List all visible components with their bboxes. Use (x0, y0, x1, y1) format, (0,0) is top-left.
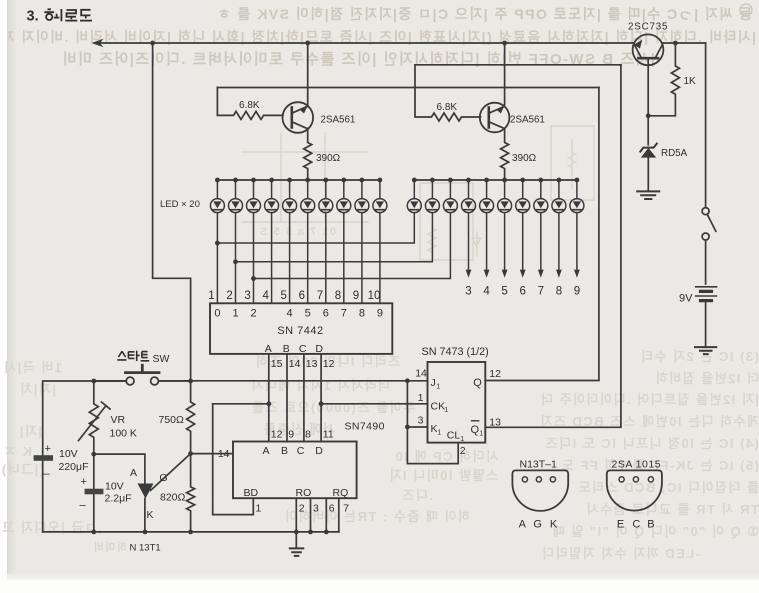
svg-text:A: A (265, 343, 272, 355)
svg-text:1: 1 (436, 383, 440, 390)
svg-text:4: 4 (483, 286, 490, 298)
svg-text:8: 8 (305, 428, 311, 440)
svg-text:B: B (281, 445, 288, 457)
svg-text:750Ω: 750Ω (159, 414, 185, 426)
svg-text:2: 2 (299, 503, 305, 515)
svg-text:+: + (45, 443, 51, 455)
svg-text:Q: Q (471, 424, 480, 436)
svg-text:13: 13 (306, 358, 318, 370)
svg-text:3: 3 (244, 290, 250, 302)
svg-text:RD5A: RD5A (661, 148, 688, 159)
svg-text:VR: VR (111, 414, 126, 426)
svg-text:220μF: 220μF (59, 461, 89, 473)
svg-text:390Ω: 390Ω (512, 153, 537, 164)
svg-text:E: E (617, 519, 624, 531)
svg-text:4: 4 (287, 308, 293, 320)
svg-text:7: 7 (538, 286, 544, 298)
svg-text:N13T–1: N13T–1 (520, 458, 558, 470)
svg-text:C: C (299, 343, 307, 355)
svg-text:14: 14 (415, 367, 427, 379)
svg-text:9V: 9V (679, 293, 693, 305)
svg-text:2SA561: 2SA561 (321, 114, 356, 125)
svg-text:13: 13 (489, 417, 501, 429)
svg-text:6: 6 (323, 308, 329, 320)
svg-text:8: 8 (556, 286, 562, 298)
svg-text:2SA561: 2SA561 (510, 114, 545, 125)
svg-text:14: 14 (289, 358, 301, 370)
svg-text:7: 7 (317, 290, 323, 302)
svg-text:2: 2 (460, 445, 466, 457)
svg-text:14: 14 (218, 448, 230, 460)
svg-text:BD: BD (244, 487, 259, 499)
svg-text:A: A (262, 445, 269, 457)
svg-text:SN 7442: SN 7442 (277, 325, 323, 337)
svg-text:6.8K: 6.8K (437, 102, 458, 113)
svg-text:G: G (159, 472, 167, 484)
svg-text:K: K (550, 519, 558, 531)
svg-text:3: 3 (418, 414, 424, 426)
svg-text:1: 1 (460, 436, 464, 443)
svg-text:A: A (519, 519, 527, 531)
svg-text:9: 9 (288, 428, 294, 440)
svg-text:RO: RO (296, 487, 312, 499)
svg-text:6: 6 (519, 286, 525, 298)
svg-text:SW: SW (153, 353, 170, 365)
svg-text:6.8K: 6.8K (239, 100, 260, 111)
svg-text:–: – (44, 468, 51, 480)
svg-text:C: C (632, 519, 640, 531)
svg-text:9: 9 (377, 308, 383, 320)
svg-text:12: 12 (323, 358, 335, 370)
svg-text:7: 7 (343, 503, 349, 515)
svg-text:12: 12 (489, 368, 501, 380)
svg-text:5: 5 (501, 286, 507, 298)
svg-text:D: D (315, 343, 323, 355)
svg-text:3: 3 (465, 286, 471, 298)
svg-text:1: 1 (444, 407, 448, 414)
svg-text:J: J (431, 377, 436, 389)
svg-text:K: K (146, 509, 153, 521)
svg-text:5: 5 (305, 308, 311, 320)
svg-text:D: D (315, 445, 323, 457)
svg-text:4: 4 (262, 290, 269, 302)
svg-text:390Ω: 390Ω (316, 153, 341, 164)
svg-text:A: A (130, 467, 137, 479)
svg-text:9: 9 (353, 290, 359, 302)
svg-text:2: 2 (226, 290, 232, 302)
svg-text:B: B (283, 343, 290, 355)
svg-text:1: 1 (437, 429, 441, 436)
svg-text:B: B (647, 519, 654, 531)
svg-text:1K: 1K (684, 76, 697, 87)
svg-text:3.: 3. (27, 9, 39, 25)
svg-text:8: 8 (335, 290, 341, 302)
svg-text:G: G (533, 519, 542, 531)
svg-text:12: 12 (271, 428, 283, 440)
svg-text:+: + (81, 476, 87, 488)
svg-text:11: 11 (323, 428, 334, 440)
svg-text:9: 9 (574, 286, 580, 298)
svg-text:10: 10 (368, 290, 381, 302)
svg-text:820Ω: 820Ω (160, 491, 186, 503)
svg-text:C: C (297, 445, 305, 457)
svg-text:2SA 1015: 2SA 1015 (612, 458, 662, 470)
svg-text:2.2μF: 2.2μF (105, 493, 132, 505)
svg-text:5: 5 (280, 290, 286, 302)
svg-text:6: 6 (299, 290, 305, 302)
svg-text:10V: 10V (59, 448, 78, 460)
svg-text:100 K: 100 K (110, 427, 137, 439)
svg-text:6: 6 (329, 503, 335, 515)
svg-text:LED × 20: LED × 20 (160, 199, 200, 210)
svg-text:N 13T1: N 13T1 (130, 543, 161, 554)
svg-text:CK: CK (431, 401, 446, 413)
svg-text:2: 2 (250, 308, 256, 320)
svg-text:Q: Q (473, 377, 482, 389)
svg-text:1: 1 (479, 431, 483, 438)
svg-text:1: 1 (208, 290, 214, 302)
svg-text:1: 1 (232, 308, 238, 320)
svg-text:1: 1 (418, 392, 424, 404)
svg-text:0: 0 (214, 308, 220, 320)
svg-text:SN7490: SN7490 (345, 420, 385, 432)
svg-text:–: – (80, 500, 87, 512)
svg-text:SN 7473 (1/2): SN 7473 (1/2) (422, 346, 489, 358)
svg-text:15: 15 (271, 358, 283, 370)
svg-text:1: 1 (256, 503, 262, 515)
svg-text:10V: 10V (105, 480, 124, 492)
svg-text:3: 3 (313, 503, 319, 515)
svg-text:2SC735: 2SC735 (628, 22, 668, 33)
svg-text:7: 7 (341, 308, 347, 320)
svg-text:CL: CL (447, 430, 461, 442)
svg-text:8: 8 (359, 308, 365, 320)
svg-text:RQ: RQ (333, 487, 349, 499)
